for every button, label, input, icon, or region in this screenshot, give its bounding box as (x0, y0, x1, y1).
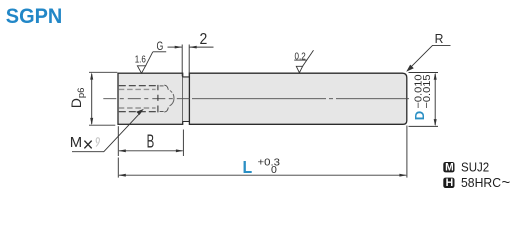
legend material M SUJ2 (443, 160, 489, 175)
tapped hole inner (drill) dashed lines (119, 89, 156, 108)
svg-text:M: M (70, 134, 82, 151)
svg-text:p6: p6 (76, 88, 87, 99)
surface finish symbol 0.2 (294, 50, 313, 72)
legend hardness H 58HRC~ (443, 174, 510, 191)
svg-text:58HRC: 58HRC (461, 175, 501, 190)
svg-text:H: H (446, 177, 454, 189)
label D p6 (rotated) (69, 88, 87, 109)
thread runout bottom hook (160, 107, 169, 112)
centerline (shaft axis) (103, 98, 409, 100)
thread end arc (170, 91, 175, 107)
surface finish symbol G 1.6 (137, 52, 166, 73)
svg-text:B: B (147, 131, 155, 152)
thread depth line (157, 85, 159, 113)
corner radius leader R (409, 45, 451, 69)
svg-text:×: × (83, 134, 94, 156)
label D with tolerance (rotated) (413, 74, 433, 120)
groove (2mm relief) (183, 77, 190, 122)
svg-text:M: M (445, 162, 454, 174)
svg-text:0.2: 0.2 (295, 51, 307, 62)
svg-text:D: D (413, 111, 427, 120)
dimension D p6 (left diameter) (89, 72, 117, 125)
shaft main cylinder (length L, rounded right end) (189, 73, 406, 124)
tapped hole outer thread dashed lines (119, 86, 158, 112)
svg-text:~: ~ (502, 174, 511, 191)
leader for M x (72, 112, 141, 152)
svg-text:SGPN: SGPN (6, 4, 63, 28)
svg-text:D: D (69, 98, 84, 108)
svg-text:1.6: 1.6 (135, 55, 147, 66)
svg-text:2: 2 (200, 31, 208, 48)
svg-text:0: 0 (271, 164, 277, 176)
svg-text:−0.015: −0.015 (422, 74, 433, 108)
ghost placeholder glyph (96, 138, 99, 147)
shaft small end cylinder (length B) (118, 73, 183, 124)
thread runout top hook (160, 85, 169, 90)
dimension B (small end length) (118, 126, 183, 156)
svg-text:G: G (157, 41, 164, 53)
dimension D -0.010/-0.015 (right diameter) (409, 73, 439, 127)
svg-text:L: L (243, 157, 253, 177)
svg-text:R: R (435, 32, 444, 46)
dimension 2 (groove width) (168, 45, 214, 77)
dimension L (overall length) (118, 126, 407, 178)
svg-text:SUJ2: SUJ2 (461, 160, 489, 175)
